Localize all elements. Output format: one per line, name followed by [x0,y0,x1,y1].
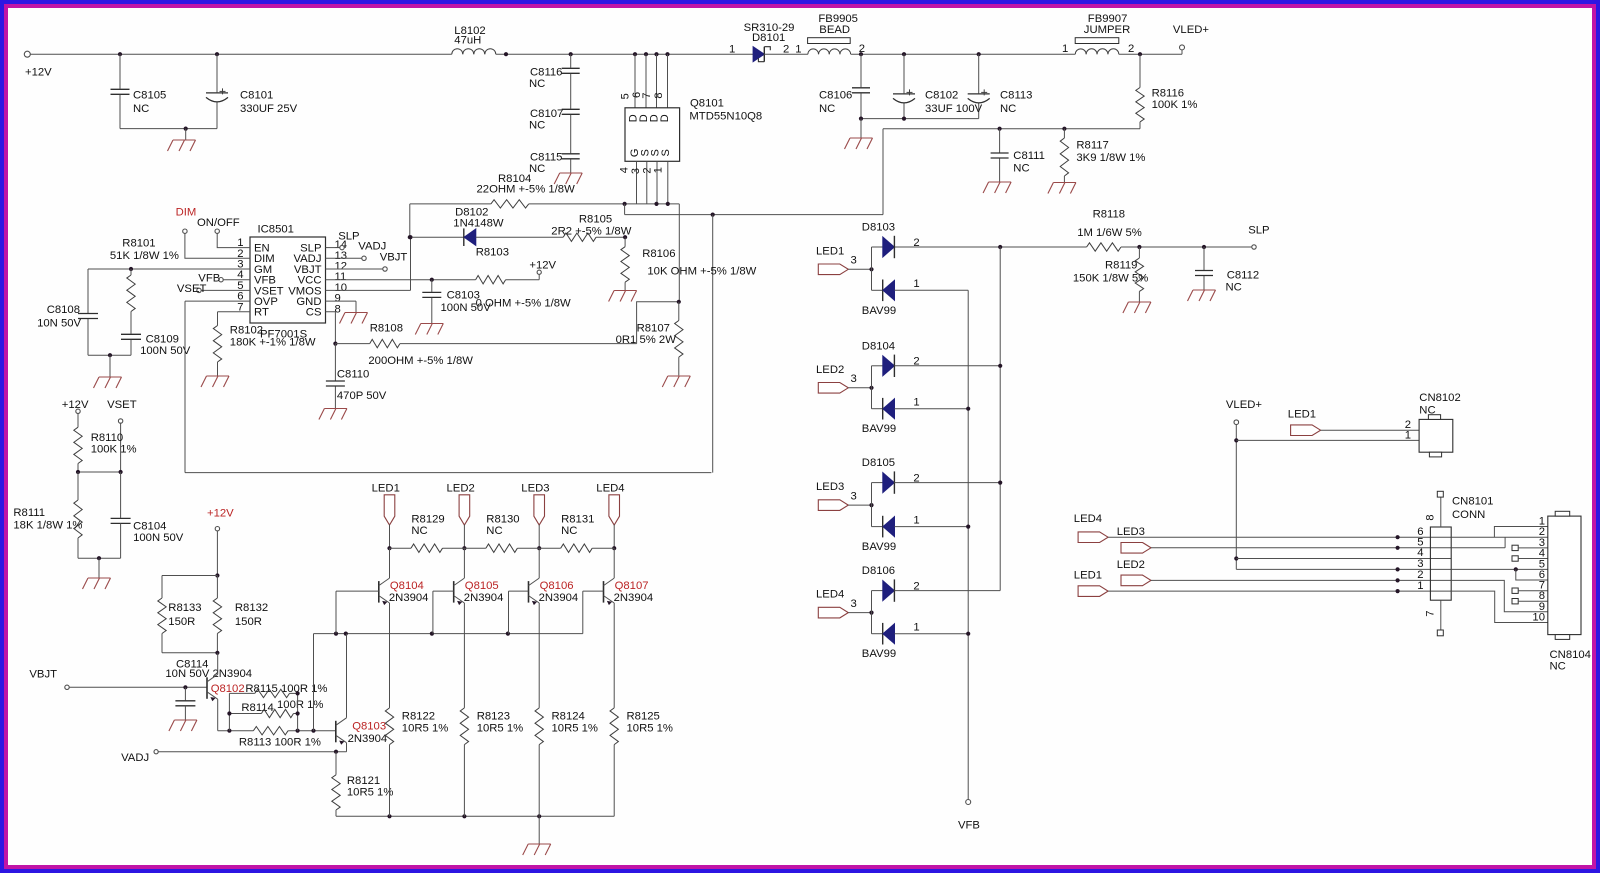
svg-text:R8106: R8106 [642,248,675,260]
svg-text:VSET: VSET [177,283,207,295]
svg-text:+12V: +12V [62,399,89,411]
svg-text:33UF 100V: 33UF 100V [925,103,983,115]
svg-text:C8108: C8108 [47,304,80,316]
svg-text:R8118: R8118 [1093,208,1125,220]
svg-text:NC: NC [529,78,545,90]
svg-text:VFB: VFB [958,820,980,832]
svg-text:R8121: R8121 [347,775,380,787]
svg-text:4: 4 [619,167,631,173]
svg-text:C8102: C8102 [925,90,958,102]
svg-text:10: 10 [1532,612,1545,624]
svg-text:IC8501: IC8501 [258,224,294,236]
svg-text:BAV99: BAV99 [862,648,896,660]
svg-text:Q8103: Q8103 [352,721,386,733]
svg-text:R8122: R8122 [402,711,435,723]
svg-text:1: 1 [1417,580,1423,592]
svg-text:C8110: C8110 [337,369,369,381]
svg-text:1: 1 [913,514,919,526]
svg-text:LED2: LED2 [1117,559,1145,571]
svg-text:10N 50V 2N3904: 10N 50V 2N3904 [165,668,252,680]
svg-text:100N 50V: 100N 50V [133,532,184,544]
svg-text:NC: NC [1419,405,1435,417]
svg-text:R8124: R8124 [552,711,585,723]
svg-text:2: 2 [913,237,919,249]
svg-text:R8102: R8102 [230,324,263,336]
svg-text:R8108: R8108 [370,322,403,334]
svg-text:1: 1 [1062,43,1068,55]
svg-text:R8103: R8103 [476,247,509,259]
svg-text:1: 1 [913,278,919,290]
svg-text:D: D [659,114,671,122]
svg-text:18K 1/8W 1%: 18K 1/8W 1% [13,519,82,531]
svg-text:VLED+: VLED+ [1173,24,1210,36]
svg-text:2: 2 [859,43,865,55]
svg-text:LED4: LED4 [816,589,844,601]
svg-text:R8133: R8133 [168,602,201,614]
svg-text:3: 3 [851,490,857,502]
svg-text:C8107: C8107 [530,108,563,120]
svg-text:1: 1 [1405,429,1411,441]
svg-text:MTD55N10Q8: MTD55N10Q8 [689,111,762,123]
svg-text:51K 1/8W 1%: 51K 1/8W 1% [110,250,179,262]
svg-text:LED3: LED3 [816,481,844,493]
svg-text:3: 3 [851,598,857,610]
svg-text:R8110: R8110 [91,432,123,444]
svg-text:2: 2 [1128,43,1134,55]
svg-text:VADJ: VADJ [121,752,149,764]
svg-text:470P 50V: 470P 50V [337,390,387,402]
svg-text:LED4: LED4 [1074,513,1102,525]
svg-text:2N3904: 2N3904 [348,733,388,745]
svg-text:3: 3 [851,255,857,267]
svg-text:1M 1/6W 5%: 1M 1/6W 5% [1077,227,1142,239]
svg-text:3K9 1/8W 1%: 3K9 1/8W 1% [1076,152,1145,164]
svg-text:R8101: R8101 [122,237,155,249]
svg-text:RT: RT [254,307,269,319]
svg-text:10R5 1%: 10R5 1% [552,723,598,735]
svg-text:C8116: C8116 [530,67,562,79]
svg-text:1: 1 [913,397,919,409]
svg-text:2: 2 [913,580,919,592]
svg-text:100K 1%: 100K 1% [1152,99,1198,111]
svg-text:22OHM +-5% 1/8W: 22OHM +-5% 1/8W [477,184,576,196]
svg-text:3: 3 [851,373,857,385]
svg-text:BAV99: BAV99 [862,305,896,317]
svg-text:D8104: D8104 [862,340,895,352]
svg-text:10R5 1%: 10R5 1% [402,723,448,735]
svg-text:SLP: SLP [1248,224,1269,236]
svg-text:BAV99: BAV99 [862,423,896,435]
svg-text:R8113 100R 1%: R8113 100R 1% [239,736,321,748]
svg-text:1: 1 [653,167,665,173]
svg-text:R8111: R8111 [13,507,45,519]
svg-text:D8106: D8106 [862,565,895,577]
svg-text:10R5 1%: 10R5 1% [477,723,523,735]
svg-text:LED2: LED2 [816,364,844,376]
svg-text:S: S [660,149,672,156]
svg-text:NC: NC [529,163,545,175]
svg-text:R8131: R8131 [561,514,594,526]
svg-text:BAV99: BAV99 [862,541,896,553]
svg-text:+12V: +12V [207,508,234,520]
svg-text:0R1 5% 2W: 0R1 5% 2W [616,334,677,346]
svg-text:CONN: CONN [1452,509,1485,521]
svg-text:8: 8 [653,92,665,98]
svg-text:D8105: D8105 [862,457,895,469]
svg-text:VBJT: VBJT [29,669,57,681]
svg-text:LED1: LED1 [816,245,844,257]
svg-text:R8107: R8107 [637,323,670,335]
svg-text:100K 1%: 100K 1% [91,443,137,455]
svg-text:C8104: C8104 [133,520,166,532]
svg-text:2: 2 [913,472,919,484]
svg-text:C8115: C8115 [530,152,562,164]
svg-text:7: 7 [1425,610,1437,616]
svg-text:2N3904: 2N3904 [539,592,579,604]
svg-text:LED3: LED3 [1117,526,1145,538]
svg-text:JUMPER: JUMPER [1084,24,1130,36]
svg-text:C8111: C8111 [1013,150,1045,162]
svg-text:Q8107: Q8107 [615,580,649,592]
svg-text:2N3904: 2N3904 [614,592,654,604]
svg-text:VBJT: VBJT [380,251,408,263]
svg-text:NC: NC [529,120,545,132]
svg-text:NC: NC [133,103,149,115]
svg-text:D8103: D8103 [862,222,895,234]
svg-text:NC: NC [819,103,835,115]
svg-text:180K +-1% 1/8W: 180K +-1% 1/8W [230,337,316,349]
svg-text:7: 7 [641,92,653,98]
svg-text:R8119: R8119 [1105,260,1137,272]
svg-text:8: 8 [1425,514,1437,520]
svg-text:DIM: DIM [176,207,197,219]
svg-text:Q8106: Q8106 [540,580,574,592]
svg-text:VLED+: VLED+ [1226,399,1263,411]
svg-text:150R: 150R [235,616,262,628]
svg-text:150K 1/8W 5%: 150K 1/8W 5% [1073,272,1148,284]
svg-text:Q8101: Q8101 [690,97,724,109]
svg-text:CS: CS [306,307,322,319]
svg-text:NC: NC [1000,103,1016,115]
svg-text:+12V: +12V [529,259,556,271]
svg-text:10N 50V: 10N 50V [37,318,81,330]
svg-text:NC: NC [1550,661,1566,673]
svg-text:2N3904: 2N3904 [464,592,504,604]
svg-text:5: 5 [620,93,632,99]
svg-text:NC: NC [561,525,577,537]
svg-text:R8117: R8117 [1076,139,1108,151]
svg-text:ON/OFF: ON/OFF [197,217,240,229]
svg-text:CN8102: CN8102 [1419,392,1460,404]
svg-text:C8112: C8112 [1227,270,1259,282]
svg-text:+12V: +12V [25,66,52,78]
svg-text:2N3904: 2N3904 [389,592,429,604]
svg-text:200OHM +-5% 1/8W: 200OHM +-5% 1/8W [368,355,473,367]
svg-text:1: 1 [795,44,801,56]
svg-text:150R: 150R [168,616,195,628]
svg-text:R8105: R8105 [579,214,612,226]
svg-text:C8113: C8113 [1000,90,1032,102]
svg-text:BEAD: BEAD [819,24,850,36]
svg-text:2R2 +-5% 1/8W: 2R2 +-5% 1/8W [551,226,631,238]
svg-text:0 OHM +-5% 1/8W: 0 OHM +-5% 1/8W [476,298,571,310]
svg-text:10R5 1%: 10R5 1% [347,787,393,799]
svg-text:R8132: R8132 [235,602,268,614]
svg-text:SLP: SLP [338,230,359,242]
svg-text:R8125: R8125 [627,711,660,723]
svg-text:1N4148W: 1N4148W [453,218,504,230]
svg-text:NC: NC [411,525,427,537]
svg-text:NC: NC [486,525,502,537]
svg-text:2: 2 [913,356,919,368]
svg-text:Q8104: Q8104 [390,580,424,592]
svg-text:R8116: R8116 [1152,88,1184,100]
svg-text:R8123: R8123 [477,711,510,723]
svg-text:100R 1%: 100R 1% [277,699,323,711]
svg-text:R8114: R8114 [241,702,273,714]
svg-text:C8101: C8101 [240,90,273,102]
svg-text:R8129: R8129 [411,514,444,526]
svg-text:C8105: C8105 [133,90,166,102]
svg-text:10R5 1%: 10R5 1% [627,723,673,735]
svg-text:1: 1 [729,44,735,56]
svg-text:LED4: LED4 [596,482,624,494]
svg-text:CN8101: CN8101 [1452,496,1493,508]
svg-text:330UF 25V: 330UF 25V [240,103,298,115]
svg-text:NC: NC [1013,162,1029,174]
svg-text:47uH: 47uH [454,35,481,47]
svg-text:D8101: D8101 [752,32,785,44]
svg-text:NC: NC [1226,281,1242,293]
svg-text:LED3: LED3 [521,482,549,494]
svg-text:LED2: LED2 [447,482,475,494]
svg-text:LED1: LED1 [372,482,400,494]
svg-text:LED1: LED1 [1288,409,1316,421]
svg-text:100N 50V: 100N 50V [140,345,191,357]
svg-text:3: 3 [630,168,642,174]
svg-text:1: 1 [913,622,919,634]
svg-text:VSET: VSET [107,399,137,411]
svg-text:C8109: C8109 [146,333,179,345]
svg-text:CN8104: CN8104 [1550,649,1591,661]
svg-text:C8106: C8106 [819,90,852,102]
svg-text:LED1: LED1 [1074,570,1102,582]
svg-text:2: 2 [783,44,789,56]
svg-text:10K OHM +-5% 1/8W: 10K OHM +-5% 1/8W [647,265,756,277]
svg-text:Q8105: Q8105 [465,580,499,592]
svg-text:R8130: R8130 [486,514,519,526]
